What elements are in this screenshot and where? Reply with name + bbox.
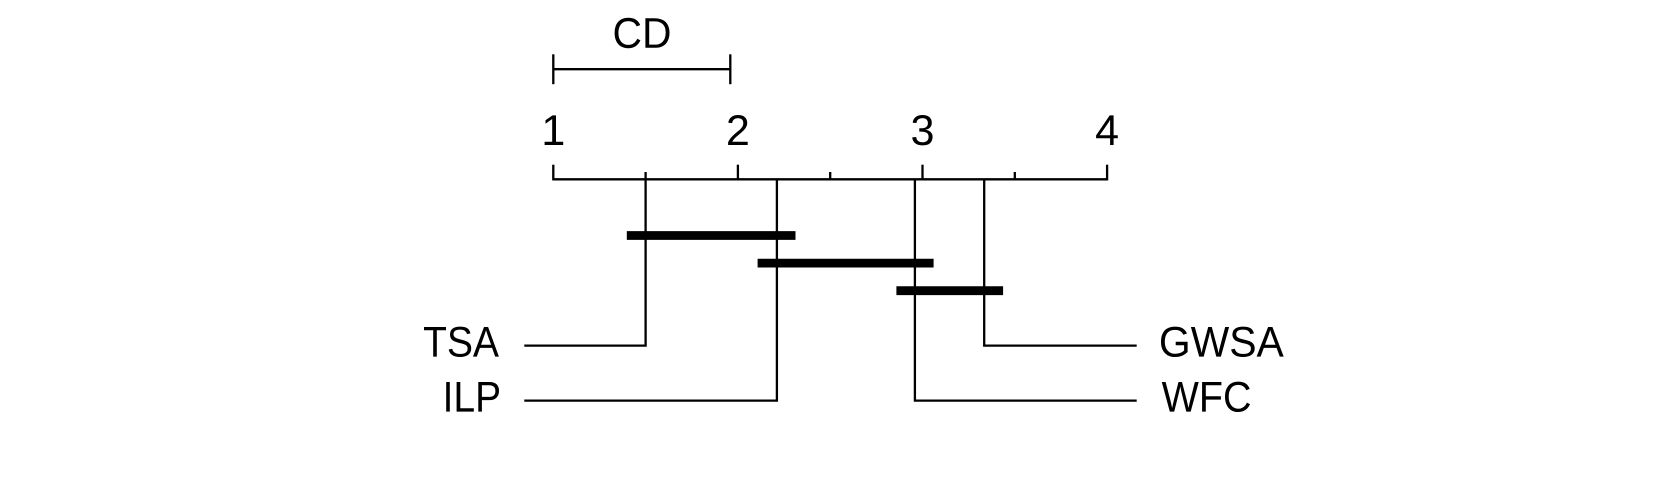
axis number 2 <box>728 115 748 145</box>
major tick 4 <box>1106 165 1108 181</box>
minor tick 1.5 <box>644 172 646 179</box>
major tick 3 <box>921 165 923 180</box>
major tick 1 <box>552 165 554 181</box>
CD bracket line <box>553 68 730 70</box>
axis line <box>553 178 1107 180</box>
axis number 3 <box>912 115 932 145</box>
axis number 1 <box>545 115 564 145</box>
minor tick 3.5 <box>1014 172 1016 179</box>
clique bar 3 (WFC-GWSA) <box>896 286 1003 295</box>
TSA connector line <box>524 179 645 345</box>
clique bar 1 (TSA-ILP) <box>627 231 796 240</box>
axis number 4 <box>1096 115 1118 145</box>
major tick 2 <box>737 165 739 180</box>
ILP connector line <box>524 179 777 400</box>
CD label <box>615 18 670 48</box>
label GWSA <box>1161 327 1284 357</box>
WFC connector line <box>915 179 1137 400</box>
label ILP <box>446 382 499 412</box>
GWSA connector line <box>984 179 1136 345</box>
CD bracket right cap <box>729 54 731 84</box>
minor tick 2.5 <box>829 172 831 179</box>
label WFC <box>1162 382 1250 412</box>
CD bracket left cap <box>552 54 554 84</box>
clique bar 2 (ILP-WFC) <box>758 259 934 268</box>
label TSA <box>424 327 499 357</box>
